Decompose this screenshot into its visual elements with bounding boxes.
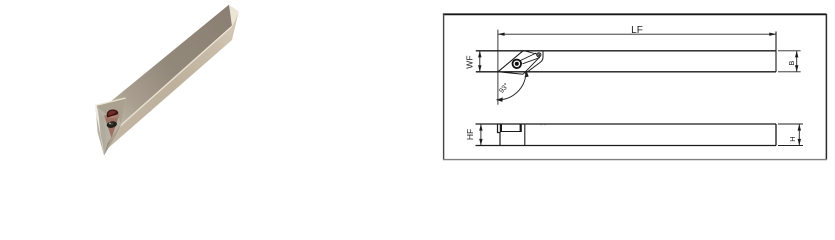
svg-text:HF: HF xyxy=(465,129,475,140)
svg-text:WF: WF xyxy=(465,55,475,68)
svg-text:H: H xyxy=(788,136,797,141)
svg-text:LF: LF xyxy=(631,25,643,36)
svg-text:B: B xyxy=(787,61,796,66)
